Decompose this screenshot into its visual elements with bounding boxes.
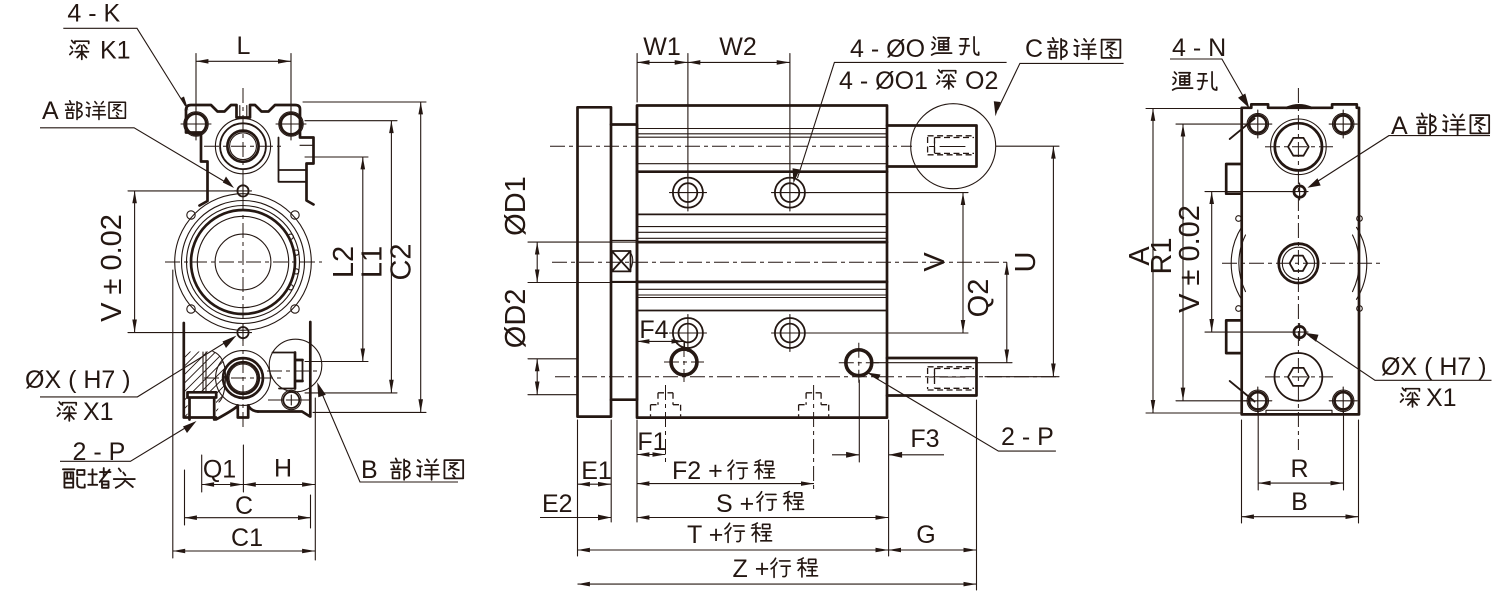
dimension V +/- 0.02 (left) bbox=[96, 191, 236, 333]
left view 2-P plug (bold) bbox=[188, 392, 217, 419]
svg-text:S +: S + bbox=[716, 490, 754, 518]
dimension diameter D1 bbox=[500, 176, 537, 282]
dimension R (bottom) bbox=[1258, 412, 1343, 490]
svg-text:A: A bbox=[42, 97, 59, 125]
right view center socket screw bbox=[1279, 244, 1318, 283]
svg-text:Q2: Q2 bbox=[963, 279, 995, 318]
left view B-detail port hole bbox=[282, 390, 301, 409]
dimension R1 bbox=[1146, 124, 1247, 401]
dimension V (mid) bbox=[795, 193, 968, 333]
svg-text:U: U bbox=[1010, 252, 1042, 273]
svg-text:4 - N: 4 - N bbox=[1172, 34, 1226, 62]
dimension S + stroke bbox=[637, 420, 889, 556]
dimension diameter D2 bbox=[500, 289, 537, 395]
dimension A (right) bbox=[1124, 109, 1248, 414]
right view dowel hole X lower bbox=[1291, 324, 1308, 341]
label diameter X H7 deep X1 (right) bbox=[1305, 333, 1492, 412]
svg-text:ØD1: ØD1 bbox=[500, 176, 532, 236]
mid view right 2-P port circle bbox=[839, 343, 879, 383]
label B detail bbox=[317, 382, 463, 484]
mid view top piston rod bbox=[887, 126, 977, 167]
svg-text:B: B bbox=[361, 456, 378, 484]
mid view port with X mark bbox=[612, 251, 633, 271]
dimension T + stroke bbox=[578, 521, 889, 550]
left view big bore circles bbox=[182, 201, 305, 324]
svg-text:ØD2: ØD2 bbox=[500, 289, 532, 349]
dimension C bbox=[185, 492, 312, 520]
mid view flange plate bbox=[578, 107, 612, 416]
label C detail bbox=[994, 35, 1124, 116]
mid view body horizontal lines bbox=[637, 129, 887, 311]
mid view left port circle bbox=[664, 342, 704, 382]
svg-text:X1: X1 bbox=[1426, 384, 1457, 412]
dimension V +/- 0.02 (right) bbox=[1174, 192, 1292, 333]
dimension C1 bbox=[173, 524, 315, 552]
left view mid bulge outer circle with ear notches bbox=[175, 194, 312, 331]
right view bore arcs bbox=[1231, 216, 1367, 312]
left view dowel hole X lower bbox=[235, 324, 252, 341]
right view mounting hole N top-left bbox=[1244, 110, 1272, 138]
svg-text:C1: C1 bbox=[231, 524, 263, 552]
dimension W1 W2 bbox=[637, 33, 790, 176]
svg-text:C: C bbox=[1025, 35, 1043, 63]
mid view head plate bbox=[611, 125, 637, 400]
dimension Z + stroke bbox=[578, 555, 977, 584]
dimension F2 + stroke bbox=[637, 457, 814, 485]
dimension G bbox=[889, 400, 977, 590]
svg-text:ØX ( H7 ): ØX ( H7 ) bbox=[25, 366, 131, 394]
svg-text:V ± 0.02: V ± 0.02 bbox=[1174, 205, 1206, 313]
left view top mounting hole K left bbox=[181, 108, 211, 140]
right view top center bump bbox=[1287, 105, 1311, 108]
mid view body outline bbox=[637, 106, 887, 418]
svg-text:4 - ØO1: 4 - ØO1 bbox=[839, 67, 928, 95]
dimension Q2 bbox=[874, 262, 1012, 362]
dimension U bbox=[985, 146, 1059, 377]
mid view rod diameter ext lines bbox=[528, 242, 637, 395]
label A detail (left) bbox=[40, 97, 234, 188]
label 4-N through hole bbox=[1170, 34, 1249, 108]
svg-text:L: L bbox=[237, 32, 251, 60]
mid view bottom guide rod bbox=[887, 358, 977, 396]
dimension L bbox=[196, 32, 291, 110]
label diameter X H7 deep X1 (left) bbox=[25, 336, 237, 427]
svg-text:2 - P: 2 - P bbox=[1001, 423, 1054, 451]
dimension F1 bbox=[637, 420, 667, 522]
dimension B (bottom) bbox=[1242, 420, 1359, 523]
svg-text:L1: L1 bbox=[357, 246, 389, 278]
svg-text:F2 +: F2 + bbox=[672, 457, 723, 485]
svg-text:4 - K: 4 - K bbox=[67, 0, 120, 28]
svg-text:H: H bbox=[274, 455, 292, 483]
svg-text:L2: L2 bbox=[328, 246, 360, 278]
right view centerlines bbox=[1222, 88, 1383, 450]
right view body outline bbox=[1226, 104, 1359, 414]
left view hatch region bbox=[150, 292, 318, 528]
label 4-diaO through hole bbox=[793, 35, 1007, 183]
svg-text:4 - ØO: 4 - ØO bbox=[850, 35, 925, 63]
svg-text:F4: F4 bbox=[639, 316, 668, 344]
svg-text:T +: T + bbox=[687, 521, 723, 549]
svg-text:ØX ( H7 ): ØX ( H7 ) bbox=[1381, 353, 1487, 381]
right view mounting hole N bottom-left bbox=[1244, 387, 1272, 414]
right view top socket screw bbox=[1271, 119, 1327, 175]
left view bottom rod bushing circles bbox=[216, 351, 271, 418]
mid view centerlines bbox=[550, 146, 1060, 490]
svg-text:C: C bbox=[235, 492, 253, 520]
label A detail (right) bbox=[1308, 112, 1491, 188]
svg-text:E1: E1 bbox=[581, 457, 612, 485]
mid view hidden T-slots bbox=[651, 393, 829, 417]
svg-text:W2: W2 bbox=[719, 33, 757, 61]
dimension E2 (outside arrows) bbox=[540, 490, 611, 520]
svg-text:F1: F1 bbox=[637, 428, 666, 456]
left view centerlines bbox=[165, 88, 322, 428]
svg-text:F3: F3 bbox=[910, 425, 939, 453]
svg-text:R: R bbox=[1290, 455, 1308, 483]
svg-text:G: G bbox=[916, 521, 935, 549]
left view top mounting hole K right bbox=[276, 108, 306, 140]
dimension L1 bbox=[305, 121, 397, 393]
svg-text:Q1: Q1 bbox=[203, 456, 236, 484]
right view bottom socket screw bbox=[1275, 353, 1323, 401]
svg-text:B: B bbox=[1291, 488, 1308, 516]
dimension F3 (outside arrows) bbox=[832, 380, 944, 462]
svg-text:E2: E2 bbox=[542, 490, 573, 518]
svg-text:V ± 0.02: V ± 0.02 bbox=[96, 214, 128, 322]
label 4-K deep K1 bbox=[63, 0, 188, 111]
dimension L2 bbox=[305, 157, 368, 362]
svg-text:Z +: Z + bbox=[733, 555, 770, 583]
svg-text:C2: C2 bbox=[386, 243, 418, 280]
svg-text:X1: X1 bbox=[83, 398, 114, 426]
right view dowel hole A upper bbox=[1291, 183, 1308, 200]
left view B detail slot (bold) bbox=[273, 353, 303, 389]
svg-text:W1: W1 bbox=[643, 33, 681, 61]
svg-text:O2: O2 bbox=[965, 67, 998, 95]
label 2-P (mid) bbox=[867, 373, 1056, 452]
mid view C detail circle bbox=[911, 104, 996, 189]
left view B detail circle bbox=[269, 339, 322, 392]
mid view lower mounting holes O bbox=[670, 315, 809, 352]
left view body outline bbox=[184, 105, 314, 420]
right view mounting hole N bottom-right bbox=[1329, 387, 1357, 414]
dimension E1 bbox=[578, 420, 612, 556]
left view top rod bushing circles bbox=[215, 106, 270, 174]
label 2-P with plug bbox=[60, 421, 197, 488]
left view port boss internal line bbox=[300, 144, 314, 146]
left view dowel hole A upper bbox=[235, 183, 252, 200]
right view mounting hole N top-right bbox=[1329, 110, 1357, 138]
svg-text:K1: K1 bbox=[100, 37, 131, 65]
dimension Q1 and H bbox=[173, 270, 315, 560]
mid view top mounting holes O bbox=[670, 174, 809, 211]
dimension C2 bbox=[303, 102, 426, 412]
dimension F4 bbox=[637, 316, 685, 350]
svg-text:V: V bbox=[919, 252, 951, 272]
